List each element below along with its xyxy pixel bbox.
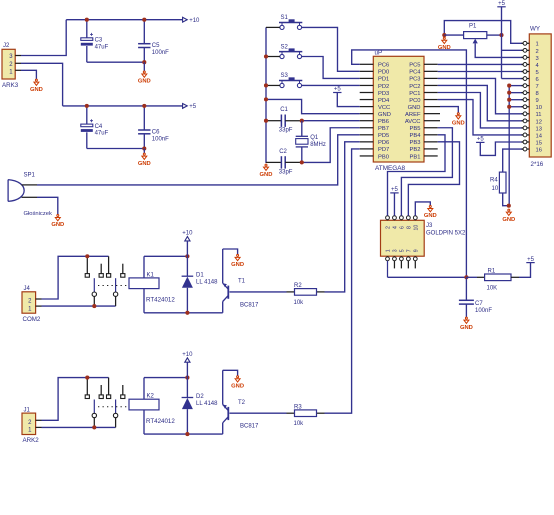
svg-text:2: 2 xyxy=(536,49,539,55)
svg-text:8: 8 xyxy=(536,91,539,97)
svg-text:C1: C1 xyxy=(280,107,288,113)
power +5 top right xyxy=(497,6,505,8)
chip left pin stubs and names xyxy=(360,63,374,65)
wire P1 right lead xyxy=(487,34,502,36)
resistor R1 10K xyxy=(466,276,477,278)
wire speaker pin2 to ground xyxy=(37,197,58,214)
svg-text:BC817: BC817 xyxy=(240,424,259,430)
svg-text:GND: GND xyxy=(51,222,64,228)
svg-text:D1: D1 xyxy=(196,273,204,279)
svg-text:K1: K1 xyxy=(147,272,155,278)
svg-text:C5: C5 xyxy=(152,43,160,49)
svg-text:10k: 10k xyxy=(294,300,305,306)
svg-text:+5: +5 xyxy=(189,104,197,110)
wire PC5 to WY pin4 xyxy=(438,63,525,65)
wire button ground rail xyxy=(265,27,267,163)
wire P1 wiper to WY pin3 xyxy=(475,43,525,57)
svg-text:8MHz: 8MHz xyxy=(310,142,326,148)
svg-text:GND: GND xyxy=(438,45,451,51)
svg-text:PD2: PD2 xyxy=(378,84,389,90)
wire rail to chip GND pin xyxy=(266,99,360,113)
capacitor C1 33pF xyxy=(266,120,281,122)
svg-text:10: 10 xyxy=(414,225,420,231)
svg-text:ARK2: ARK2 xyxy=(23,437,40,444)
svg-text:PD7: PD7 xyxy=(378,147,389,153)
svg-text:13: 13 xyxy=(536,126,542,132)
svg-text:VCC: VCC xyxy=(378,105,390,111)
svg-text:GND: GND xyxy=(378,112,391,118)
svg-text:+10: +10 xyxy=(182,352,193,358)
svg-text:+10: +10 xyxy=(182,231,193,237)
potentiometer P1 xyxy=(444,34,463,36)
svg-text:PB6: PB6 xyxy=(378,119,389,125)
svg-text:C6: C6 xyxy=(152,129,160,135)
transistor T2 BC817 xyxy=(222,423,224,434)
wire J1 pin1 to contacts bottom xyxy=(42,426,116,428)
svg-text:C7: C7 xyxy=(475,301,483,307)
svg-text:C3: C3 xyxy=(95,38,103,44)
svg-text:100nF: 100nF xyxy=(152,50,169,56)
ground at J3 pin10 xyxy=(428,206,433,212)
svg-text:6: 6 xyxy=(400,226,406,229)
capacitor C2 33pF xyxy=(266,161,281,163)
ground at T1 xyxy=(235,254,240,260)
capacitor C4 47uF xyxy=(86,106,88,124)
svg-text:R1: R1 xyxy=(488,268,496,274)
J2 pin stubs xyxy=(15,55,21,57)
svg-text:GND: GND xyxy=(452,120,465,126)
ground under button rail xyxy=(264,164,269,170)
svg-text:10: 10 xyxy=(536,105,542,111)
relay coil K1 RT424012 xyxy=(129,278,159,289)
svg-text:GND: GND xyxy=(424,213,437,219)
svg-text:PB5: PB5 xyxy=(410,126,421,132)
svg-text:+5: +5 xyxy=(527,257,535,263)
svg-text:RT424012: RT424012 xyxy=(146,418,175,425)
svg-text:+5: +5 xyxy=(477,137,485,143)
svg-text:9: 9 xyxy=(414,249,420,252)
svg-text:J1: J1 xyxy=(24,408,31,414)
svg-text:J2: J2 xyxy=(3,43,10,49)
capacitor C7 100nF xyxy=(465,277,467,300)
svg-text:PC6: PC6 xyxy=(378,63,389,69)
svg-text:PD4: PD4 xyxy=(378,98,390,104)
svg-text:PC3: PC3 xyxy=(409,77,420,83)
push button S1 xyxy=(279,22,302,24)
relay link dashes K1 xyxy=(98,285,129,287)
resistor R3 10k xyxy=(230,412,287,414)
svg-text:PB7: PB7 xyxy=(378,126,389,132)
power +5 at R1 xyxy=(526,262,534,264)
wire chip GND pin to ground xyxy=(440,107,458,113)
svg-text:GND: GND xyxy=(138,79,151,85)
push button S2 xyxy=(279,51,302,53)
connector J2 ARK3 xyxy=(2,49,15,79)
ground under C7 xyxy=(464,317,469,323)
svg-text:GND: GND xyxy=(502,217,515,223)
svg-text:10k: 10k xyxy=(294,421,305,427)
ground at P1 left xyxy=(442,33,446,37)
wire J4 pin2 to contacts top xyxy=(42,256,109,299)
connector J3 GOLDPIN 5X2 xyxy=(381,220,425,256)
wire PB3 to J3 pin8 xyxy=(408,142,459,216)
wire R4 to ground xyxy=(503,193,509,206)
power +5 arrow xyxy=(183,104,188,109)
wire J3 pin10 to ground xyxy=(415,202,430,216)
svg-text:PD6: PD6 xyxy=(378,140,389,146)
svg-text:GND: GND xyxy=(408,105,421,111)
resistor R4 10 xyxy=(499,172,506,193)
wire J4 pin1 to contacts bottom xyxy=(42,305,116,307)
svg-text:11: 11 xyxy=(536,112,542,118)
svg-text:J4: J4 xyxy=(24,286,31,292)
svg-text:100nF: 100nF xyxy=(475,308,492,314)
svg-text:PC2: PC2 xyxy=(409,84,420,90)
relay contacts K1 xyxy=(86,256,88,273)
ground at chip GND pin xyxy=(456,113,461,119)
power +10 arrow xyxy=(183,17,188,22)
wire coil bottom rail K2 xyxy=(144,433,223,435)
ground under R4 xyxy=(506,209,511,215)
svg-text:5: 5 xyxy=(400,249,406,252)
wire R2 to PD6 xyxy=(325,142,360,292)
wire S1 to PD0 xyxy=(302,27,360,71)
svg-text:PC1: PC1 xyxy=(409,91,420,97)
svg-text:+5: +5 xyxy=(334,87,342,93)
svg-text:LL 4148: LL 4148 xyxy=(196,401,218,407)
push button S3 xyxy=(279,80,302,82)
ground under C6 xyxy=(142,153,147,159)
wire PB5 to J3 pin6 xyxy=(401,128,452,216)
wire coil bottom rail K1 xyxy=(144,312,223,314)
wire PC4 to WY pin5 xyxy=(438,71,525,73)
svg-text:RT424012: RT424012 xyxy=(146,297,175,304)
svg-text:47uF: 47uF xyxy=(95,131,109,137)
svg-text:+5: +5 xyxy=(498,1,506,7)
svg-text:K2: K2 xyxy=(147,394,155,400)
wire J1 pin2 to contacts top xyxy=(42,378,109,421)
power +10 at K1 xyxy=(185,237,190,241)
svg-text:PB0: PB0 xyxy=(378,154,389,160)
chip right pin stubs and names xyxy=(424,63,438,65)
svg-text:PB4: PB4 xyxy=(410,133,422,139)
wire speaker to PD5 net xyxy=(37,135,360,185)
wire stem to ground 2 xyxy=(143,149,145,154)
wire PC0 to WY pin14 xyxy=(438,100,525,135)
svg-text:J3: J3 xyxy=(426,223,433,229)
wire C1 to PB6 xyxy=(302,120,360,122)
power +5 at VCC xyxy=(333,92,341,94)
svg-text:T2: T2 xyxy=(238,400,246,406)
svg-text:1: 1 xyxy=(386,249,392,252)
svg-text:14: 14 xyxy=(536,133,543,139)
wire reset PC6 to R1 C7 junction xyxy=(352,50,467,277)
svg-text:GOLDPIN 5X2: GOLDPIN 5X2 xyxy=(426,231,466,237)
svg-text:+10: +10 xyxy=(189,18,200,24)
svg-text:PC5: PC5 xyxy=(409,63,420,69)
svg-text:16: 16 xyxy=(536,147,542,153)
resistor R2 10k xyxy=(230,291,287,293)
svg-text:9: 9 xyxy=(536,98,539,104)
wire S3 to PD2 xyxy=(302,84,360,86)
svg-text:2*16: 2*16 xyxy=(531,161,544,168)
wire PC3 to WY pin11 xyxy=(438,78,525,113)
ground at T2 xyxy=(235,376,240,382)
svg-text:3: 3 xyxy=(536,56,539,62)
svg-text:7: 7 xyxy=(536,84,539,90)
connector J4 COM2 xyxy=(22,292,36,313)
svg-text:T1: T1 xyxy=(238,279,246,285)
wire PB4 to J3 pin2 xyxy=(388,135,446,216)
capacitor C6 100nF xyxy=(143,106,145,130)
svg-text:PC4: PC4 xyxy=(409,70,421,76)
svg-text:D2: D2 xyxy=(196,394,204,400)
svg-text:12: 12 xyxy=(536,119,542,125)
svg-text:C2: C2 xyxy=(279,149,287,155)
speaker pin stubs xyxy=(22,184,38,186)
wire T2 emitter to ground xyxy=(223,370,238,375)
wire WY pins 7-10 ground bus xyxy=(508,86,510,206)
svg-text:GND: GND xyxy=(231,383,244,389)
svg-text:AREF: AREF xyxy=(405,112,421,118)
diode D2 LL4148 xyxy=(186,378,188,398)
svg-text:GND: GND xyxy=(30,87,43,93)
relay contacts K2 xyxy=(86,378,88,395)
svg-text:PB2: PB2 xyxy=(410,147,421,153)
wire J2 pin2 to +5 rail xyxy=(21,63,63,106)
relay link dashes K2 xyxy=(98,406,129,408)
svg-text:GND: GND xyxy=(138,161,151,167)
svg-text:6: 6 xyxy=(536,77,539,83)
svg-text:1: 1 xyxy=(536,42,539,48)
J4 pin stubs xyxy=(36,298,42,300)
wire coil top rail K2 xyxy=(144,377,187,379)
svg-text:PB3: PB3 xyxy=(410,140,421,146)
svg-text:10K: 10K xyxy=(487,285,498,291)
wire C3 C5 bottom xyxy=(87,61,145,63)
svg-text:AVCC: AVCC xyxy=(405,119,421,125)
svg-text:S2: S2 xyxy=(281,44,289,50)
svg-text:R2: R2 xyxy=(294,283,302,289)
svg-text:R4: R4 xyxy=(490,177,498,183)
ground under C5 xyxy=(142,71,147,77)
svg-text:PD3: PD3 xyxy=(378,91,389,97)
svg-text:7: 7 xyxy=(407,249,413,252)
wire coil top rail K1 xyxy=(144,255,187,257)
wire J2 pin1 to ground xyxy=(21,70,36,79)
connector J1 ARK2 xyxy=(22,413,36,434)
ground under J2 xyxy=(34,79,39,85)
svg-text:PB1: PB1 xyxy=(410,154,421,160)
wire stem to ground xyxy=(143,62,145,71)
svg-text:S1: S1 xyxy=(281,15,289,21)
speaker SP1 xyxy=(8,180,24,202)
svg-text:8: 8 xyxy=(407,226,413,229)
svg-text:+5: +5 xyxy=(391,187,399,193)
wire +5 down to WY pin2 and pin6 xyxy=(501,7,503,79)
wire C2 junction to PB7 xyxy=(302,128,360,163)
svg-text:GND: GND xyxy=(231,262,244,268)
wire R3 to PD7 xyxy=(325,149,360,413)
svg-text:R3: R3 xyxy=(294,404,302,410)
wire +5 rail xyxy=(63,105,183,107)
svg-text:C4: C4 xyxy=(95,124,103,130)
power +5 at J3 pin4 xyxy=(390,192,398,194)
svg-text:5: 5 xyxy=(536,70,539,76)
svg-text:SP1: SP1 xyxy=(24,172,36,178)
svg-text:Głośniczek: Głośniczek xyxy=(24,211,52,217)
wire C4 C6 bottom xyxy=(87,148,145,150)
J3 top pin circles xyxy=(387,219,389,222)
wire J2 pin3 to +10 rail xyxy=(21,20,66,56)
svg-text:GND: GND xyxy=(460,325,473,331)
wire P1 left to WY pin1 xyxy=(444,21,525,44)
svg-text:P1: P1 xyxy=(469,24,477,30)
wire +10 rail xyxy=(66,19,182,21)
svg-text:COM2: COM2 xyxy=(23,316,41,323)
wire T1 emitter to ground xyxy=(223,249,238,254)
svg-text:100nF: 100nF xyxy=(152,136,169,142)
svg-text:ATMEGA8: ATMEGA8 xyxy=(375,165,406,172)
svg-text:2: 2 xyxy=(386,226,392,229)
svg-text:ARK3: ARK3 xyxy=(2,82,19,89)
svg-text:4: 4 xyxy=(393,226,399,229)
svg-text:15: 15 xyxy=(536,140,542,146)
wire R1 to +5 xyxy=(511,276,519,278)
svg-text:PC0: PC0 xyxy=(409,98,420,104)
capacitor C3 47uF xyxy=(86,20,88,38)
svg-text:33pF: 33pF xyxy=(279,128,293,134)
svg-text:Q1: Q1 xyxy=(310,135,319,141)
svg-text:3: 3 xyxy=(393,249,399,252)
svg-text:PD0: PD0 xyxy=(378,70,389,76)
power +10 at K2 xyxy=(185,358,190,362)
wire PC1 to WY pin13 xyxy=(438,93,525,128)
svg-text:LL 4148: LL 4148 xyxy=(196,280,218,286)
svg-text:10: 10 xyxy=(492,186,499,192)
svg-text:47uF: 47uF xyxy=(95,44,109,50)
wire J3 pin1 reset to junction xyxy=(388,276,467,278)
J1 pin stubs xyxy=(36,419,42,421)
svg-text:PD1: PD1 xyxy=(378,77,389,83)
wire PC2 to WY pin12 xyxy=(438,85,525,120)
ground under speaker xyxy=(55,215,60,221)
relay coil K2 RT424012 xyxy=(129,399,159,410)
wire WY pin16 to R4 xyxy=(503,149,525,172)
svg-text:PD5: PD5 xyxy=(378,133,389,139)
transistor T1 BC817 xyxy=(222,302,224,313)
svg-text:S3: S3 xyxy=(281,73,289,79)
svg-text:WY: WY xyxy=(530,26,540,33)
svg-text:33pF: 33pF xyxy=(279,169,293,175)
J3 bottom pin circles xyxy=(387,255,389,258)
power +5 at WY pin15 xyxy=(476,141,484,143)
wire +5 to WY pin15 xyxy=(480,142,525,155)
svg-text:BC817: BC817 xyxy=(240,302,259,308)
svg-text:GND: GND xyxy=(260,172,273,178)
capacitor C5 100nF xyxy=(143,20,145,44)
wire S2 to PD1 xyxy=(302,57,360,79)
diode D1 LL4148 xyxy=(186,256,188,276)
crystal Q1 8MHz xyxy=(301,121,303,137)
